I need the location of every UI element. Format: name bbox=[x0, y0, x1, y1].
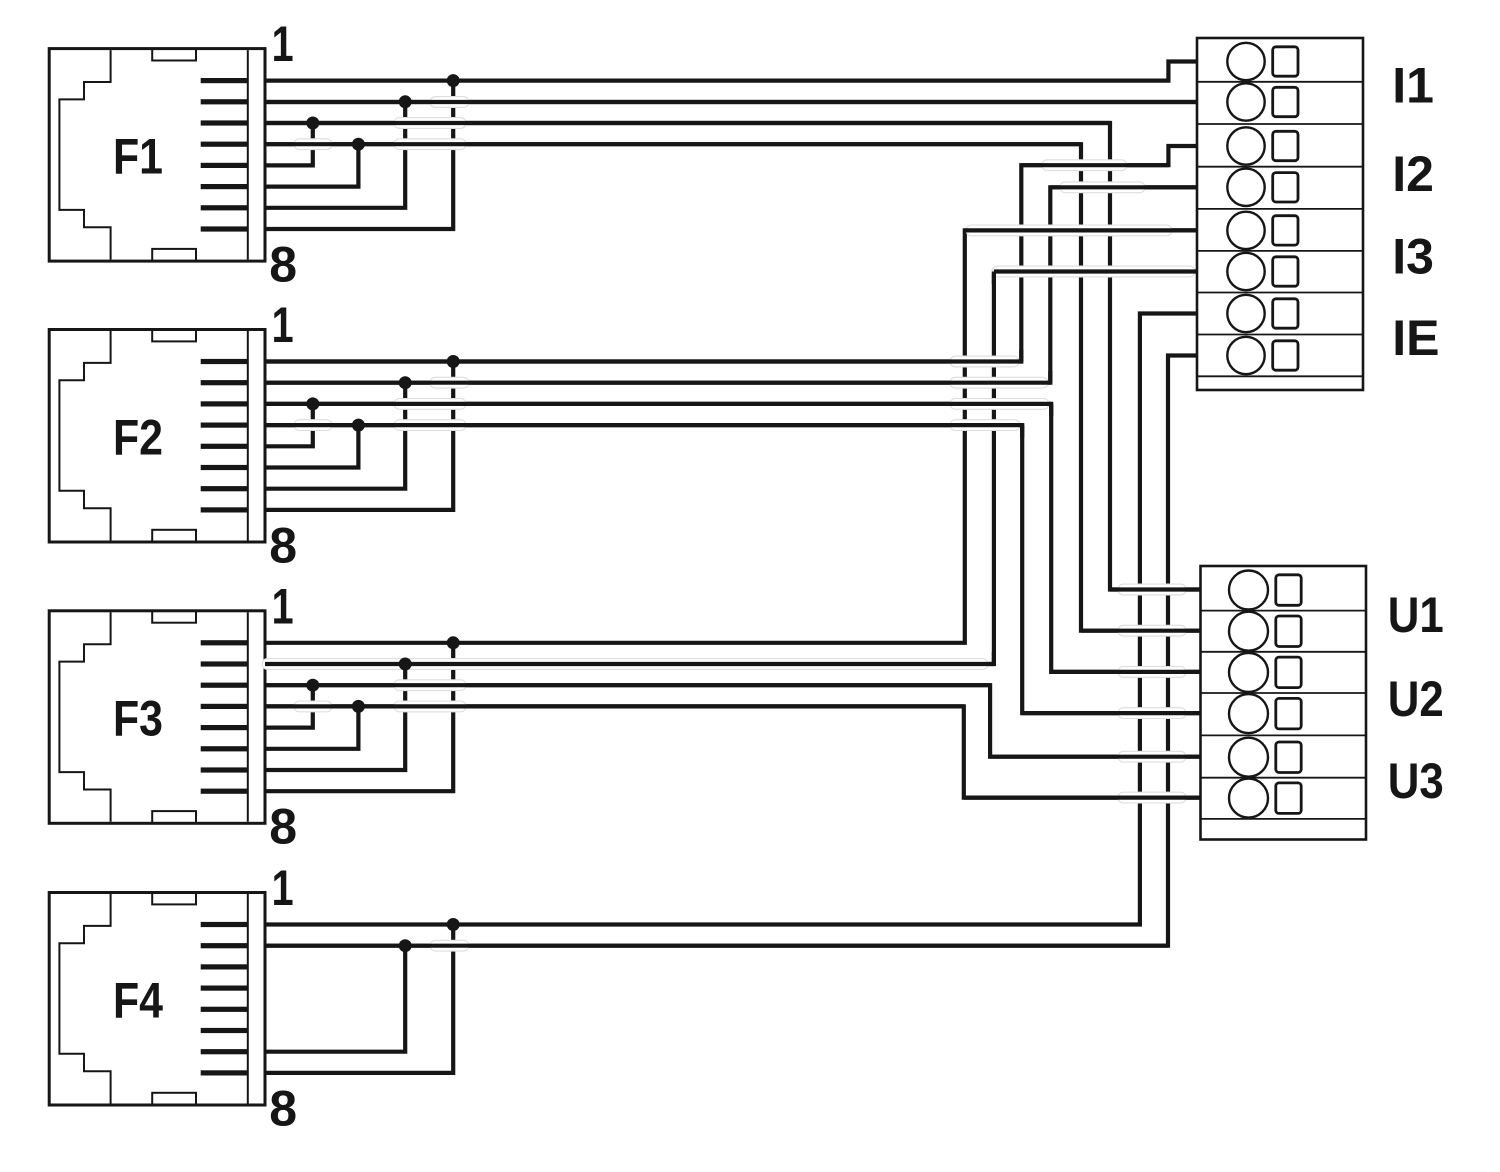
wire F2 pin2 net hops over pin8 drop and F3 risers bbox=[430, 377, 469, 388]
wire F2 pair 1+8 to terminal I2-a bbox=[265, 146, 1197, 362]
svg-text:1: 1 bbox=[272, 297, 294, 353]
svg-text:IE: IE bbox=[1392, 310, 1439, 366]
svg-text:U2: U2 bbox=[1388, 671, 1444, 727]
junction F3 pin3/pin5 bbox=[306, 679, 319, 692]
svg-text:F3: F3 bbox=[113, 691, 163, 747]
junction F2 pin2/pin7 bbox=[399, 376, 412, 389]
svg-text:1: 1 bbox=[272, 578, 294, 634]
wire F3 pin3 net hop over pin7/pin8 drops bbox=[394, 680, 466, 691]
wire F3 pin6 up to pin4 net bbox=[265, 706, 358, 748]
wire F3 pin2 net hop over F2 drops into I3-b bbox=[992, 266, 1195, 277]
wire F1 pair 2+7 to terminal I1-b bbox=[265, 100, 1197, 104]
wire F2 pair 3+5 to terminal U2-a bbox=[265, 404, 1201, 672]
wire F1 pin3 net hop over pin7/pin8 drops bbox=[394, 118, 466, 129]
F4 contact pins 1-8 bbox=[201, 922, 248, 1076]
svg-text:1: 1 bbox=[272, 860, 294, 916]
svg-text:F1: F1 bbox=[113, 129, 163, 185]
wire F4 pin7 up to pin2 net bbox=[265, 946, 405, 1052]
RJ45 jack F1 body bbox=[49, 49, 265, 262]
wire F2 pin1 net hop over F1 drops into I2-a bbox=[1042, 160, 1127, 171]
wire F3 pin5 up to pin3 net bbox=[265, 685, 313, 727]
wire F2 pin6 up to pin4 net bbox=[265, 425, 358, 467]
F2 contact pins 1-8 bbox=[201, 359, 248, 513]
RJ45 jack F2 body bbox=[49, 330, 265, 543]
wire F1 pair 1+8 to terminal I1-a bbox=[265, 62, 1197, 81]
wire F2 pin5 up to pin3 net bbox=[265, 404, 313, 446]
svg-text:I1: I1 bbox=[1392, 57, 1434, 113]
svg-text:8: 8 bbox=[269, 517, 297, 573]
wire F1 pair 3+5 to terminal U1-a bbox=[265, 123, 1201, 590]
svg-text:I2: I2 bbox=[1392, 146, 1434, 202]
svg-text:F2: F2 bbox=[113, 409, 163, 465]
wire F2 pin3 net hops over fan and F3 risers bbox=[394, 399, 466, 410]
wire F2 pin8 up to pin1 net bbox=[265, 362, 453, 510]
terminal block X1 (current inputs, 8 positions) bbox=[1197, 38, 1363, 390]
wire F1 pin2 net hop over pin8 drop bbox=[430, 97, 469, 108]
F3 contact pins 1-8 bbox=[201, 640, 248, 794]
junction F3 pin2/pin7 bbox=[399, 658, 412, 671]
junction F2 pin4/pin6 bbox=[352, 419, 365, 432]
wire into U2-a hop over IE risers bbox=[1118, 667, 1186, 678]
junction F1 pin3/pin5 bbox=[306, 117, 319, 130]
junction F1 pin2/pin7 bbox=[399, 95, 412, 108]
wire into U2-b hop over IE risers bbox=[1118, 708, 1186, 719]
wire F3 pin7 up to pin2 net bbox=[265, 664, 405, 770]
wire into U1-a hop over IE risers bbox=[1118, 584, 1186, 595]
junction F2 pin3/pin5 bbox=[306, 397, 319, 410]
wire into U3-a hop over IE risers bbox=[1118, 751, 1186, 762]
wire F2 pin1 net hop over F3 risers bbox=[950, 356, 1019, 367]
wire F3 pair 1+8 to terminal I3-a bbox=[265, 230, 1197, 642]
wire F2 pair 4+6 to terminal U2-b bbox=[265, 425, 1201, 713]
wire F4 pair 2+7 to terminal IE-b bbox=[265, 356, 1197, 946]
junction F4 pin1/pin8 bbox=[447, 918, 460, 931]
svg-text:F4: F4 bbox=[113, 972, 163, 1028]
wire F4 pin8 up to pin1 net bbox=[265, 925, 453, 1073]
terminal block X2 (voltage inputs, 6 positions) bbox=[1201, 566, 1367, 840]
junction F3 pin4/pin6 bbox=[352, 700, 365, 713]
junction F2 pin1/pin8 bbox=[447, 355, 460, 368]
wire F1 pair 4+6 to terminal U1-b bbox=[265, 144, 1201, 631]
wire F2 pin4 net hops over fan and F3 risers bbox=[294, 420, 332, 431]
RJ45 jack F4 body bbox=[49, 893, 265, 1106]
wire F1 pin4 net hops over pin5/pin7/pin8 drops bbox=[294, 139, 332, 150]
wire F3 pin4 net hops over pin5/pin7/pin8 drops bbox=[294, 701, 332, 712]
junction F4 pin2/pin7 bbox=[399, 939, 412, 952]
svg-text:8: 8 bbox=[269, 799, 297, 855]
wire F2 pin2 net hop over F1 drops into I2-b bbox=[1060, 182, 1145, 193]
wire F4 pair 1+8 to terminal IE-a bbox=[265, 314, 1197, 925]
wire F3 pair 4+6 to terminal U3-b bbox=[265, 706, 1201, 797]
wire into U3-b hop over IE risers bbox=[1118, 792, 1186, 803]
svg-text:8: 8 bbox=[269, 1080, 297, 1136]
RJ45 jack F3 body bbox=[49, 611, 265, 824]
wire F2 pair 2+7 to terminal I2-b bbox=[265, 187, 1197, 382]
wire F1 pin6 up to pin4 net bbox=[265, 144, 358, 186]
junction F1 pin4/pin6 bbox=[352, 138, 365, 151]
wire F3 pin2 net cased run over pin8 drop bbox=[262, 659, 988, 670]
wire F1 pin8 up to pin1 net bbox=[265, 81, 453, 229]
junction F3 pin1/pin8 bbox=[447, 636, 460, 649]
wire into U1-b hop over IE risers bbox=[1118, 625, 1186, 636]
wire F3 pin1 net hop over F2 drops into I3-a bbox=[966, 225, 1172, 236]
junction F1 pin1/pin8 bbox=[447, 74, 460, 87]
wire F1 pin7 up to pin2 net bbox=[265, 102, 405, 208]
wire F1 pin5 up to pin3 net bbox=[265, 123, 313, 165]
svg-text:U3: U3 bbox=[1388, 753, 1444, 809]
svg-text:1: 1 bbox=[272, 16, 294, 72]
F1 contact pins 1-8 bbox=[201, 78, 248, 232]
wire F3 pair 2+7 to terminal I3-b bbox=[265, 272, 1197, 665]
wire F3 pair 3+5 to terminal U3-a bbox=[265, 685, 1201, 757]
svg-text:I3: I3 bbox=[1392, 228, 1434, 284]
svg-text:U1: U1 bbox=[1388, 587, 1444, 643]
svg-text:8: 8 bbox=[269, 236, 297, 292]
wire F3 pin8 up to pin1 net bbox=[265, 643, 453, 791]
wire F4 pin2 net hop over pin8 drop bbox=[430, 940, 469, 951]
wire F2 pin7 up to pin2 net bbox=[265, 383, 405, 489]
